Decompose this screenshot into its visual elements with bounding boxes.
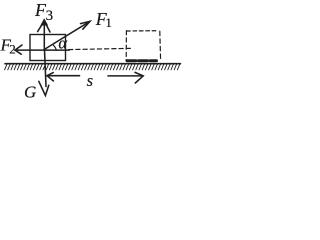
svg-text:α: α (58, 34, 67, 53)
dashed horizontal reference line (69, 48, 133, 49)
wire F2 shaft / horizontal reference through block (15, 49, 69, 51)
block (initial position) (30, 35, 66, 61)
F2 arrowhead (15, 45, 22, 54)
svg-text:G: G (24, 83, 36, 102)
dashed box bottom edge (bold dashes) (127, 59, 157, 62)
svg-text:3: 3 (46, 8, 54, 24)
s dimension left arrow (47, 75, 80, 77)
svg-text:1: 1 (105, 15, 112, 30)
dashed box top edge (127, 30, 158, 32)
G arrowhead (39, 81, 49, 95)
force F1 line (44, 21, 90, 49)
angle arc alpha (53, 45, 56, 50)
F3 arrowhead (38, 21, 50, 32)
ground hatching (5, 64, 180, 70)
G (gravity) shaft from block centre through ground (45, 50, 47, 87)
F1 arrowhead (81, 21, 91, 29)
dashed box right edge (159, 31, 162, 60)
ground line (5, 63, 181, 65)
svg-text:s: s (87, 71, 93, 90)
F3 shaft (43, 22, 45, 51)
dashed box left edge (final position) (125, 31, 127, 60)
s dimension right arrow (108, 75, 143, 77)
svg-text:2: 2 (9, 42, 16, 57)
